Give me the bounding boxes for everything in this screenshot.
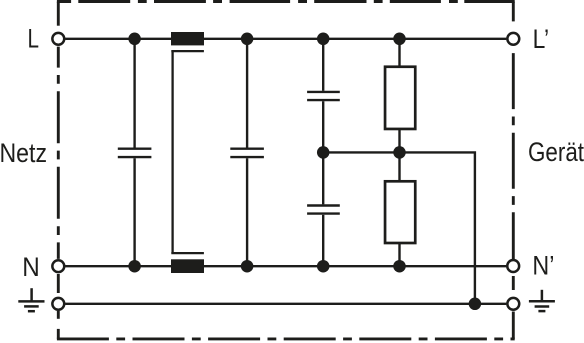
junction midpoint Y-caps bbox=[317, 146, 330, 159]
junction L rail / Y-caps bbox=[317, 33, 330, 46]
junction L rail / C1 bbox=[128, 33, 141, 46]
choke winding L1a bbox=[171, 32, 204, 45]
junction L rail / resistors bbox=[393, 33, 406, 46]
wire branch C2 upper bbox=[246, 39, 248, 148]
junction midpoint resistors bbox=[393, 146, 406, 159]
junction N rail / resistors bbox=[393, 260, 406, 273]
choke core bbox=[171, 51, 204, 253]
wire PE rail bbox=[65, 303, 506, 305]
terminal PE' bbox=[507, 298, 519, 310]
terminal L bbox=[52, 33, 64, 45]
terminal N' bbox=[507, 260, 519, 272]
choke winding L1b bbox=[171, 259, 204, 273]
capacitor C2 (X-cap) bbox=[230, 149, 264, 157]
svg-text:N: N bbox=[22, 252, 40, 282]
enclosure boundary (dash-dot frame) bbox=[57, 2, 515, 339]
capacitor C4 (Y-cap) bbox=[307, 206, 340, 214]
wire branch Y-caps lower bbox=[322, 215, 324, 266]
svg-text:Netz: Netz bbox=[0, 138, 47, 168]
resistor R1 bbox=[385, 67, 415, 129]
resistor R2 bbox=[385, 181, 415, 243]
wire branch resistors lower bbox=[398, 244, 400, 266]
wire branch Y-caps upper bbox=[322, 39, 324, 91]
wire branch resistors upper bbox=[398, 39, 400, 66]
svg-text:N’: N’ bbox=[532, 250, 554, 280]
terminal L' bbox=[507, 33, 519, 45]
svg-text:L: L bbox=[28, 24, 40, 54]
junction PE rail bbox=[469, 298, 482, 311]
wire L rail bbox=[65, 38, 506, 40]
svg-text:Gerät: Gerät bbox=[528, 137, 584, 167]
wire branch C2 lower bbox=[246, 158, 248, 266]
junction N rail / Y-caps bbox=[317, 260, 330, 273]
junction N rail / C2 bbox=[241, 260, 254, 273]
ground symbol (Geraet side) bbox=[529, 290, 555, 311]
wire branch resistors middle bbox=[398, 130, 400, 181]
capacitor C3 (Y-cap) bbox=[307, 92, 340, 100]
ground symbol (Netz side) bbox=[18, 288, 44, 311]
terminal PE bbox=[52, 298, 64, 310]
terminal N bbox=[52, 260, 64, 272]
wire branch C1 upper bbox=[133, 39, 135, 148]
junction L rail / C2 bbox=[241, 33, 254, 46]
junction N rail / C1 bbox=[128, 260, 141, 273]
wire branch C1 lower bbox=[133, 158, 135, 266]
wire midpoint to PE bbox=[323, 152, 475, 303]
wire branch Y-caps middle bbox=[322, 101, 324, 204]
svg-text:L’: L’ bbox=[533, 24, 550, 54]
wire N rail bbox=[65, 265, 506, 267]
capacitor C1 (X-cap) bbox=[118, 149, 152, 157]
